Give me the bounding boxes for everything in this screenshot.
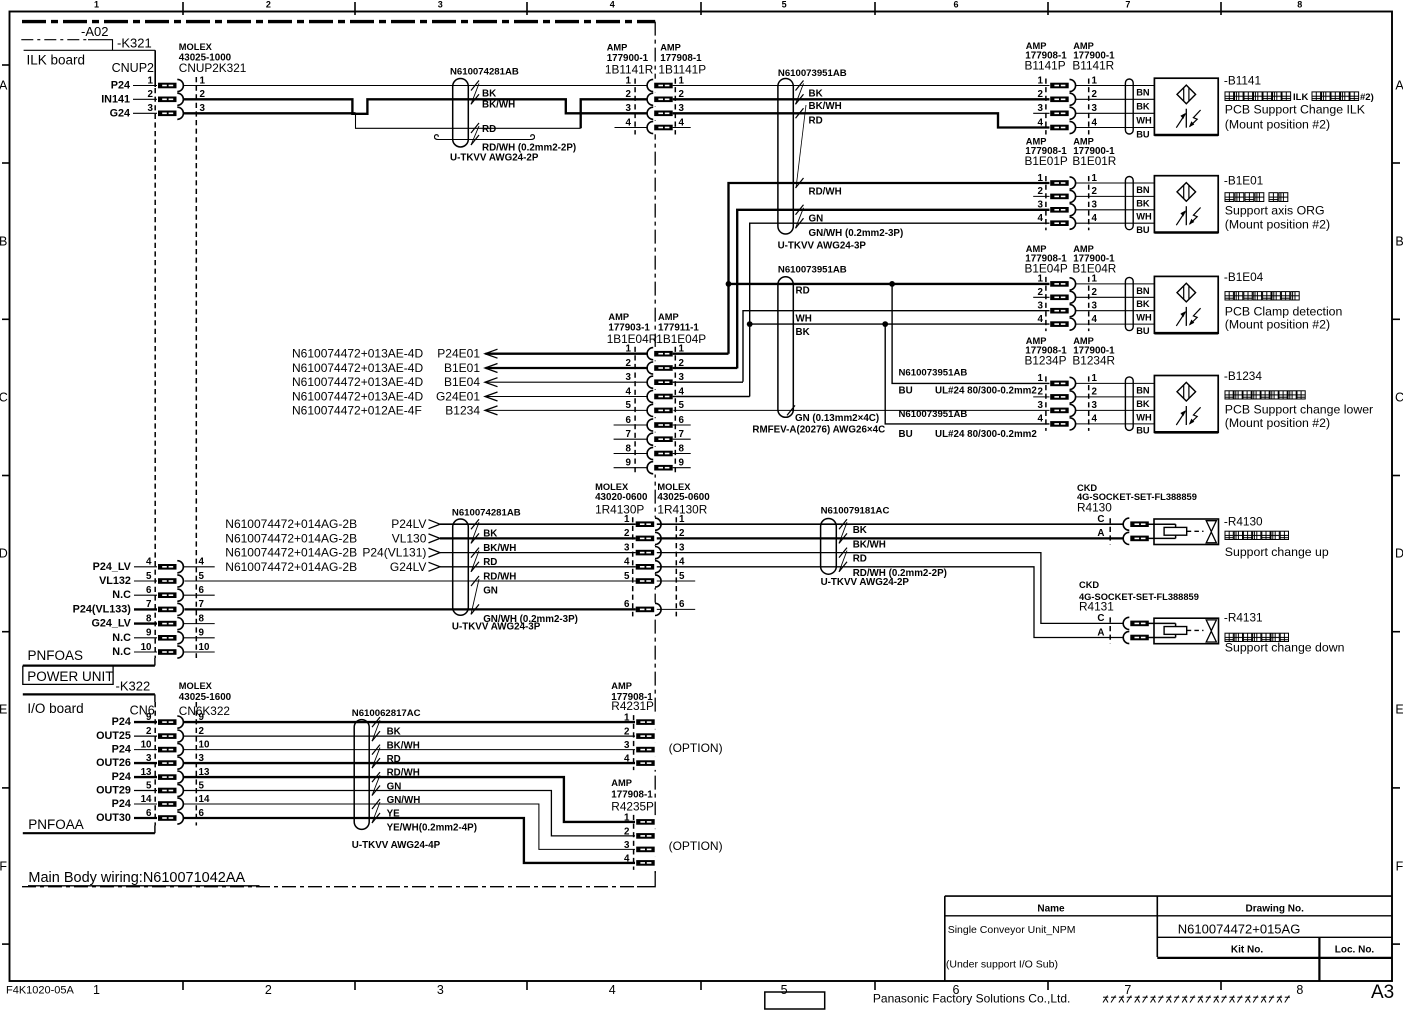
wire stub K321 pin 6: [183, 594, 214, 596]
svg-text:BK/WH: BK/WH: [482, 100, 515, 111]
svg-text:2: 2: [146, 726, 152, 737]
grid tick right: [1392, 631, 1400, 633]
svg-text:5: 5: [199, 780, 205, 791]
connector CN6 pin 2 lead: [134, 735, 158, 737]
svg-text:3: 3: [1092, 400, 1098, 411]
boundary -A02 bottom dash-dot line: [22, 886, 638, 888]
svg-text:8: 8: [679, 443, 685, 454]
svg-text:(Mount position #2): (Mount position #2): [1225, 118, 1330, 132]
wire tick BK/WH (row D cable): [471, 533, 479, 543]
grid tick top: [874, 2, 876, 15]
wire CN6 row 4 to R4231P pin 4: [183, 762, 636, 764]
svg-text:5: 5: [146, 571, 152, 582]
svg-text:2: 2: [1038, 387, 1044, 398]
svg-text:R4235P: R4235P: [611, 800, 654, 814]
svg-text:GN (0.13mm2×4C): GN (0.13mm2×4C): [795, 413, 879, 424]
svg-text:AMP: AMP: [1026, 244, 1047, 254]
connector 1B1E04 pin 2 contact: [647, 361, 674, 375]
svg-text:8: 8: [1296, 983, 1303, 997]
wire BK row1: [673, 85, 1050, 87]
grid tick bottom: [354, 981, 356, 990]
wire tick RD (bottom cable): [372, 745, 380, 755]
svg-text:1: 1: [93, 983, 100, 997]
cable N610073951AB sheath oval lower: [778, 277, 793, 418]
pair link (bottom cable): [372, 720, 380, 741]
svg-text:9: 9: [679, 458, 685, 469]
svg-text:BU: BU: [1136, 129, 1150, 139]
cable N610062817AC sheath oval: [354, 720, 369, 830]
grid tick top: [1047, 2, 1049, 15]
svg-text:43025-0600: 43025-0600: [657, 492, 710, 503]
svg-text:BK/WH: BK/WH: [809, 101, 842, 112]
boundary -K321 solid segment: [88, 40, 113, 51]
svg-text:CNUP2K321: CNUP2K321: [179, 61, 247, 75]
sensor B1E01 light arrow: [1176, 212, 1185, 226]
node junction dot (892.1,f1): [889, 281, 895, 287]
wire sensor B1E04 lead WH: [1076, 310, 1155, 312]
label R4131 japanese description: [1225, 633, 1233, 641]
wire GN/WH to B1E01 pin4: [750, 223, 1050, 324]
svg-text:Support change down: Support change down: [1225, 641, 1345, 655]
svg-text:1: 1: [1038, 173, 1044, 184]
grid tick right: [1392, 475, 1400, 477]
grid tick right: [1392, 787, 1400, 789]
svg-text:1: 1: [200, 75, 206, 86]
svg-text:WH: WH: [1136, 412, 1152, 422]
grid tick left: [2, 475, 10, 477]
wire 1R4130R pin4 to R4131 A: [657, 567, 1124, 638]
sensor B1141 lightning symbol: [1190, 110, 1201, 126]
svg-text:P24: P24: [112, 771, 131, 783]
svg-text:N.C: N.C: [112, 646, 131, 658]
svg-text:-B1E01: -B1E01: [1224, 174, 1263, 188]
arrow left B1234: [485, 406, 498, 415]
svg-text:RD: RD: [483, 557, 497, 568]
wire stub 1B1E04P pin 7 right: [673, 438, 691, 440]
svg-text:6: 6: [953, 0, 958, 10]
svg-text:1: 1: [624, 812, 630, 823]
boundary -A02 bottom corner: [637, 871, 655, 887]
connector K321 pin 10 lead: [134, 651, 158, 653]
svg-text:3: 3: [1038, 400, 1044, 411]
sensor B1234 box bottom edge thick: [1154, 431, 1218, 434]
connector CNUP2 pin 2 lead: [133, 98, 158, 100]
fold mark tick left: [2, 64, 10, 66]
svg-text:G24E01: G24E01: [436, 390, 480, 404]
svg-text:F: F: [1396, 860, 1403, 874]
svg-text:BK: BK: [853, 525, 867, 536]
svg-text:3: 3: [626, 372, 632, 383]
I/O board box top edge: [23, 693, 155, 695]
svg-text:OUT25: OUT25: [96, 730, 131, 742]
svg-text:4: 4: [610, 0, 615, 10]
connector 1B1E04 pin 4 contact: [647, 390, 674, 404]
sensor B1234 light arrow: [1176, 411, 1185, 425]
connector K321 pin 8 lead: [134, 622, 158, 624]
connector CN6 pin 13 contact: [157, 770, 185, 784]
arrow right VL130: [429, 534, 441, 543]
svg-text:RD/WH: RD/WH: [809, 187, 842, 198]
sensor B1234 receiver bar: [1185, 406, 1187, 425]
svg-text:WH: WH: [1136, 116, 1152, 126]
svg-text:4: 4: [679, 117, 685, 128]
wire BU to B1234 pin4: [885, 324, 1050, 424]
connector CN6K322 dashed line left: [154, 702, 156, 826]
svg-text:N610062817AC: N610062817AC: [352, 708, 421, 719]
wire 1R4130R pin1 to R4130 C: [657, 523, 1124, 525]
wire sensor B1E04 lead BK: [1076, 296, 1155, 298]
svg-text:BU: BU: [899, 386, 913, 397]
svg-text:5: 5: [626, 400, 632, 411]
wire G24E01 to 1B1E04R pin 4: [486, 396, 649, 398]
svg-text:4: 4: [1038, 213, 1044, 224]
connector 1B1E04 pin 6 contact: [647, 418, 674, 432]
svg-text:1: 1: [1092, 173, 1098, 184]
label B1E04 japanese description: [1225, 292, 1233, 300]
wire sensor B1E04 lead BU: [1076, 323, 1155, 325]
grid tick bottom: [1047, 981, 1049, 990]
wire stub 1R4130R pin6: [657, 608, 695, 610]
svg-text:7: 7: [1124, 983, 1131, 997]
wire tick RD (R4130 cable): [839, 548, 847, 558]
svg-text:BK: BK: [1136, 198, 1150, 208]
wire tick RD/WH (row D cable): [471, 562, 479, 572]
pair link BK-BK/WH: [471, 84, 479, 105]
cable N610074281AB sheath oval: [453, 79, 469, 148]
svg-text:8: 8: [1297, 0, 1302, 10]
svg-text:BK/WH: BK/WH: [387, 741, 420, 752]
grid tick top: [526, 2, 528, 15]
svg-text:4: 4: [679, 557, 685, 568]
wire stub 1B1E04P pin 6 right: [673, 424, 691, 426]
valve R4130 pin A contact: [1124, 532, 1150, 546]
wire stub 1B1E04R pin 6 left: [614, 424, 648, 426]
svg-text:BU: BU: [1136, 426, 1150, 436]
svg-text:AMP: AMP: [611, 681, 632, 691]
svg-text:10: 10: [141, 739, 152, 750]
wire CN6 row 2 to R4231P pin 2: [183, 735, 636, 737]
svg-text:P24LV: P24LV: [391, 517, 426, 531]
wire CN6 row 1 to R4231P pin 1: [183, 721, 636, 723]
wire 1B1E04P pin3 riser: [673, 381, 743, 383]
connector R4231P pin 1 contact: [635, 715, 657, 729]
title block outer left: [944, 896, 946, 981]
footer japanese company name: [1103, 996, 1108, 1003]
svg-text:MOLEX: MOLEX: [657, 482, 691, 492]
svg-text:Drawing No.: Drawing No.: [1246, 904, 1305, 915]
svg-text:3: 3: [624, 740, 630, 751]
svg-text:N610074472+015AG: N610074472+015AG: [1178, 922, 1301, 937]
svg-text:4: 4: [626, 386, 632, 397]
svg-text:6: 6: [146, 808, 152, 819]
svg-text:N610074472+013AE-4D: N610074472+013AE-4D: [292, 375, 423, 389]
svg-text:IN141: IN141: [101, 93, 130, 105]
sensor B1141 diamond symbol: [1177, 85, 1196, 104]
svg-text:(Under support I/O Sub): (Under support I/O Sub): [946, 959, 1058, 971]
I/O board box top right corner: [154, 694, 156, 702]
svg-text:2: 2: [626, 89, 632, 100]
wire tick BK (bottom cable): [372, 717, 380, 727]
svg-text:3: 3: [1092, 103, 1098, 114]
svg-text:GN: GN: [387, 782, 402, 793]
connector K321 pin 5 lead: [134, 580, 158, 582]
valve R4131 pin C contact: [1124, 617, 1150, 631]
arrow right P24(VL131): [429, 548, 441, 557]
svg-text:6: 6: [679, 599, 685, 610]
connector R4235P pin 1 contact: [635, 815, 657, 829]
connector CNUP2K321 dashed line right: [195, 77, 197, 658]
wire tick RD/WH (mid cable): [796, 178, 804, 188]
svg-text:1: 1: [1038, 75, 1044, 86]
connector 1R4130 pin 6 contact: [635, 603, 662, 617]
grid tick bottom: [526, 981, 528, 990]
wire P24(VL131) to 1R4130P pin 3: [440, 552, 636, 554]
svg-text:9: 9: [146, 712, 152, 723]
wire tick YE (bottom cable): [372, 799, 380, 809]
svg-text:BN: BN: [1136, 88, 1150, 98]
wire sensor B1141 lead BU: [1076, 127, 1155, 129]
wire P24E01 to 1B1E04R pin 1: [486, 353, 649, 355]
wire tick YE/WH(0.2mm2-4P) (bottom cable): [372, 813, 380, 823]
connector B1141P dashed line left: [1045, 79, 1047, 135]
wire tick GN (mid cable): [796, 205, 804, 215]
connector CN6 pin 9 contact: [157, 715, 185, 729]
svg-text:B1234: B1234: [445, 403, 480, 417]
svg-text:C: C: [1097, 514, 1104, 525]
svg-text:RD: RD: [809, 116, 823, 127]
connector B1234P pin 3 contact: [1050, 404, 1077, 418]
svg-text:3: 3: [148, 103, 154, 114]
title block header underline: [945, 915, 1392, 917]
wire CN6 row 5 to R4235P pin 1: [183, 777, 636, 822]
pair link GN-GN/WH (row D): [471, 579, 479, 614]
svg-text:2: 2: [266, 0, 271, 10]
node junction dot (885.2,f4): [882, 321, 888, 327]
svg-text:5: 5: [624, 571, 630, 582]
svg-text:4: 4: [624, 754, 630, 765]
svg-text:N610074472+014AG-2B: N610074472+014AG-2B: [225, 517, 357, 531]
ILK board box right edge solid: [154, 50, 156, 87]
svg-text:B1141P: B1141P: [1025, 58, 1066, 72]
valve R4131 dashed link: [1187, 629, 1204, 631]
svg-text:AMP: AMP: [1073, 336, 1094, 346]
wire tick GN (4C cable): [787, 405, 795, 415]
connector CN6 pin 10 lead: [134, 749, 158, 751]
svg-text:PNFOAS: PNFOAS: [28, 648, 84, 663]
svg-text:N610073951AB: N610073951AB: [778, 68, 847, 79]
svg-text:OUT26: OUT26: [96, 757, 131, 769]
grid tick bottom: [182, 981, 184, 990]
svg-text:9: 9: [626, 458, 632, 469]
svg-text:BK: BK: [809, 88, 823, 99]
svg-text:2: 2: [148, 89, 154, 100]
svg-text:3: 3: [679, 542, 685, 553]
svg-text:5: 5: [679, 400, 685, 411]
svg-text:B1E01R: B1E01R: [1072, 154, 1116, 168]
svg-text:OUT29: OUT29: [96, 785, 131, 797]
wire BU to B1234 pin1: [892, 284, 1050, 384]
grid tick left: [2, 162, 10, 164]
svg-text:-A02: -A02: [81, 24, 108, 39]
svg-text:(Mount position #2): (Mount position #2): [1225, 218, 1330, 232]
svg-text:CN6K322: CN6K322: [179, 704, 230, 718]
svg-text:7: 7: [626, 429, 632, 440]
svg-text:P24(VL133): P24(VL133): [73, 603, 132, 615]
connector 1R4130 pin 3 contact: [635, 546, 662, 560]
svg-text:POWER UNIT: POWER UNIT: [27, 669, 113, 684]
svg-text:5: 5: [199, 571, 205, 582]
connector B1E01P dashed line left: [1045, 176, 1047, 230]
svg-text:G24_LV: G24_LV: [91, 618, 131, 630]
svg-text:4: 4: [1092, 414, 1098, 425]
spare wire RD/WH with coiled ends: [435, 135, 448, 140]
title block name/drawing divider: [1156, 896, 1158, 957]
title block outer top: [945, 895, 1392, 897]
svg-text:3: 3: [437, 983, 444, 997]
wire tick RD (top cable): [471, 123, 479, 133]
connector B1234P pin 2 contact: [1050, 390, 1077, 404]
svg-text:3: 3: [1092, 200, 1098, 211]
svg-text:RMFEV-A(20276) AWG26×4C: RMFEV-A(20276) AWG26×4C: [752, 425, 885, 436]
wire 1B1E04P pin4 riser: [673, 396, 750, 398]
svg-text:MOLEX: MOLEX: [595, 482, 629, 492]
connector 1R4130 pin 5 contact: [635, 574, 662, 588]
wire BK row f4: [750, 323, 1050, 325]
connector B1234P dashed line left: [1045, 376, 1047, 431]
connector CN6 pin 5 contact: [157, 784, 185, 798]
connector K321 pin 7 contact: [157, 603, 185, 617]
connector R4231P pin 4 contact: [635, 756, 657, 770]
connector CNUP2 pin 1 contact: [157, 79, 185, 93]
sensor B1E04 box: [1154, 276, 1218, 333]
connector 1R4130 dashed line right: [675, 517, 677, 616]
connector CNUP2 pin 3 lead: [133, 112, 158, 114]
svg-text:Kit No.: Kit No.: [1231, 945, 1263, 956]
svg-text:4: 4: [624, 557, 630, 568]
svg-text:Support axis ORG: Support axis ORG: [1225, 204, 1325, 218]
svg-text:-R4130: -R4130: [1224, 515, 1263, 529]
wire stub 1R4130R pin5: [657, 580, 695, 582]
valve R4131 box: [1154, 618, 1219, 644]
svg-text:UL#24 80/300-0.2mm2: UL#24 80/300-0.2mm2: [935, 386, 1037, 397]
grid tick top: [1220, 2, 1222, 15]
svg-text:B1E04P: B1E04P: [1025, 262, 1068, 276]
wire tick RD/WH (bottom cable): [372, 758, 380, 768]
svg-text:N610074472+014AG-2B: N610074472+014AG-2B: [225, 546, 357, 560]
wire sensor B1E04 lead BN: [1076, 283, 1155, 285]
wire sensor B1E01 lead BU: [1076, 222, 1155, 224]
label B1E01 japanese description: [1225, 193, 1234, 202]
svg-text:N610074472+012AE-4F: N610074472+012AE-4F: [292, 403, 422, 417]
wire sensor B1234 lead BK: [1076, 396, 1155, 398]
footer stamp box: [765, 992, 825, 1009]
grid tick left: [2, 631, 10, 633]
svg-text:AMP: AMP: [658, 312, 679, 322]
connector CNUP2 pin 3 contact: [157, 107, 185, 121]
connector R4235P pin 3 contact: [635, 843, 657, 857]
POWER UNIT box: [23, 666, 113, 685]
svg-text:PCB Clamp detection: PCB Clamp detection: [1225, 305, 1343, 319]
connector 1B1E04 pin 3 contact: [647, 375, 674, 389]
valve R4131 dashed line: [1109, 617, 1111, 643]
svg-text:VL130: VL130: [392, 531, 427, 545]
svg-text:BU: BU: [1136, 225, 1150, 235]
sensor B1E04 box bottom edge thick: [1154, 332, 1218, 335]
svg-text:4: 4: [1092, 213, 1098, 224]
wire tick RD (row D cable): [471, 548, 479, 558]
wire stub 1B1E04R pin 7 left: [614, 438, 648, 440]
sensor B1E04 light arrow: [1176, 312, 1185, 326]
svg-text:P24: P24: [112, 716, 131, 728]
svg-text:N610074472+014AG-2B: N610074472+014AG-2B: [225, 531, 357, 545]
valve R4130 bowtie symbol: [1206, 521, 1216, 543]
wire sensor B1234 lead BU: [1076, 423, 1155, 425]
pair link BK-BK/WH (row D): [471, 522, 479, 543]
svg-text:3: 3: [624, 840, 630, 851]
svg-text:F: F: [0, 860, 7, 874]
wire VL132 to 1R4130P pin5: [183, 580, 636, 582]
connector CN6 pin 9 lead: [134, 721, 158, 723]
grid tick left: [2, 318, 10, 320]
svg-text:3: 3: [679, 372, 685, 383]
pair link GN-GN/WH (mid): [796, 208, 804, 228]
svg-text:4: 4: [146, 557, 152, 568]
wire sensor B1141 lead WH: [1076, 112, 1155, 114]
sensor B1E01 box: [1154, 176, 1218, 233]
wire tick BK/WH (top cable): [471, 94, 479, 104]
svg-text:Support change up: Support change up: [1225, 545, 1329, 559]
wire sensor B1141 lead BN: [1076, 85, 1155, 87]
svg-text:1: 1: [679, 75, 685, 86]
sensor B1E04 receiver bar: [1185, 307, 1187, 326]
svg-text:2: 2: [624, 826, 630, 837]
svg-text:BN: BN: [1136, 385, 1150, 395]
svg-text:2: 2: [1092, 387, 1098, 398]
svg-text:13: 13: [141, 767, 152, 778]
wire 1R4130R pin3 to R4131 C: [657, 553, 1124, 624]
wire tick BK/WH (mid cable): [796, 94, 804, 104]
cable sheath oval sensor B1E01: [1125, 177, 1133, 230]
svg-text:-R4131: -R4131: [1224, 611, 1263, 625]
svg-text:RD/WH: RD/WH: [483, 571, 516, 582]
wire VL130 to 1R4130P pin 2: [440, 537, 636, 539]
wire stub 1B1141R pin4 left: [615, 127, 649, 129]
svg-text:BK/WH: BK/WH: [483, 543, 516, 554]
wire RD row f1: [729, 283, 1051, 285]
svg-text:P24: P24: [112, 744, 131, 756]
valve R4131 coil bracket vertical: [1175, 623, 1177, 637]
svg-text:BK: BK: [387, 727, 401, 738]
connector B1234P pin 1 contact: [1050, 377, 1077, 391]
Main Body wiring underline: [28, 885, 260, 887]
connector B1234R dashed line right: [1088, 376, 1090, 431]
svg-text:U-TKVV AWG24-3P: U-TKVV AWG24-3P: [452, 622, 541, 633]
connector B1141P pin 1 contact: [1050, 79, 1077, 93]
boundary -A02 right dash-dot line: [654, 22, 656, 873]
connector CNUP2 pin 1 lead: [133, 85, 158, 87]
svg-text:U-TKVV AWG24-4P: U-TKVV AWG24-4P: [352, 840, 441, 851]
wire stub K321 pin 8: [183, 623, 214, 625]
wire sensor B1E01 lead WH: [1076, 209, 1155, 211]
sensor B1E04 diamond symbol: [1177, 283, 1196, 302]
svg-text:MOLEX: MOLEX: [179, 42, 213, 52]
svg-text:ILK board: ILK board: [27, 53, 86, 68]
svg-text:N610074281AB: N610074281AB: [450, 67, 519, 78]
svg-text:PNFOAA: PNFOAA: [28, 817, 84, 832]
valve R4130 lead A into box: [1148, 537, 1176, 539]
svg-text:Panasonic Factory Solutions Co: Panasonic Factory Solutions Co.,Ltd.: [873, 992, 1070, 1006]
svg-text:BN: BN: [1136, 185, 1150, 195]
